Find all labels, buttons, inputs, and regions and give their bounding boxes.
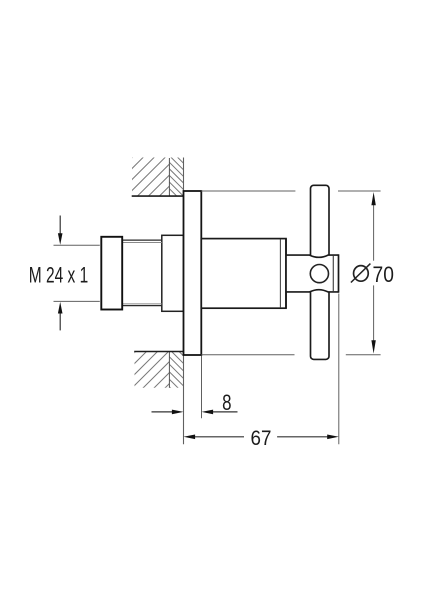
dimension 8 right arrow (213, 411, 238, 413)
label dia 70 (354, 266, 369, 282)
handle cross bar (vertical spoke) (311, 185, 330, 359)
extension line dia70 bottom (202, 354, 295, 356)
wall section hatching, top block right zone (140, 120, 210, 236)
wall section hatching, bottom block left zone (87, 330, 223, 400)
handle hub body (covers bar) (286, 255, 339, 292)
hub top edge with bar fillet (286, 255, 339, 257)
valve body flange behind wall (162, 235, 184, 311)
dimension M 24 x 1: extension lines (54, 244, 100, 246)
svg-text:M 24 x 1: M 24 x 1 (29, 263, 88, 288)
hub right end face (338, 254, 340, 292)
wall face line (also extension line for dims 8 and 67) (183, 158, 185, 445)
sleeve right end face redraw (285, 239, 287, 309)
wall section hatching, top block left zone (90, 140, 216, 200)
svg-text:8: 8 (222, 390, 231, 415)
dimension 8: extension line from plate (201, 356, 203, 418)
dimension 67 line right segment with arrow (277, 436, 328, 438)
M24 bottom arrow (59, 312, 61, 330)
dimension 67 line left segment with arrow (195, 436, 245, 438)
front spoke of cross handle (circle) (310, 265, 328, 283)
threaded neck outer edges (122, 239, 162, 241)
escutcheon plate (8 mm) (184, 191, 202, 355)
wall section hatching, bottom block right zone (130, 302, 210, 427)
bottom wall block top border (134, 351, 184, 353)
sleeve front chamfer line (279, 239, 281, 307)
hub chamfer line (332, 256, 334, 292)
svg-text:70: 70 (373, 262, 394, 287)
extension line dia70 top (201, 190, 295, 192)
dimension 67: extension line below hub (338, 294, 340, 445)
thread minor diameter lines (122, 242, 162, 244)
wall finish layer line (thin vertical), bottom (168, 352, 170, 388)
top wall block bottom border (132, 195, 184, 197)
M24 top arrow (59, 216, 61, 235)
hub bottom edge with bar fillet (286, 290, 339, 292)
dimension 8 left arrow (152, 411, 173, 413)
sleeve cylinder on plate (201, 239, 286, 309)
dimension dia 70: dimension line with arrows (373, 204, 375, 261)
wall finish layer line (thin vertical), top (168, 158, 170, 196)
svg-text:67: 67 (251, 427, 272, 450)
connection cap nut M24 (101, 237, 122, 310)
